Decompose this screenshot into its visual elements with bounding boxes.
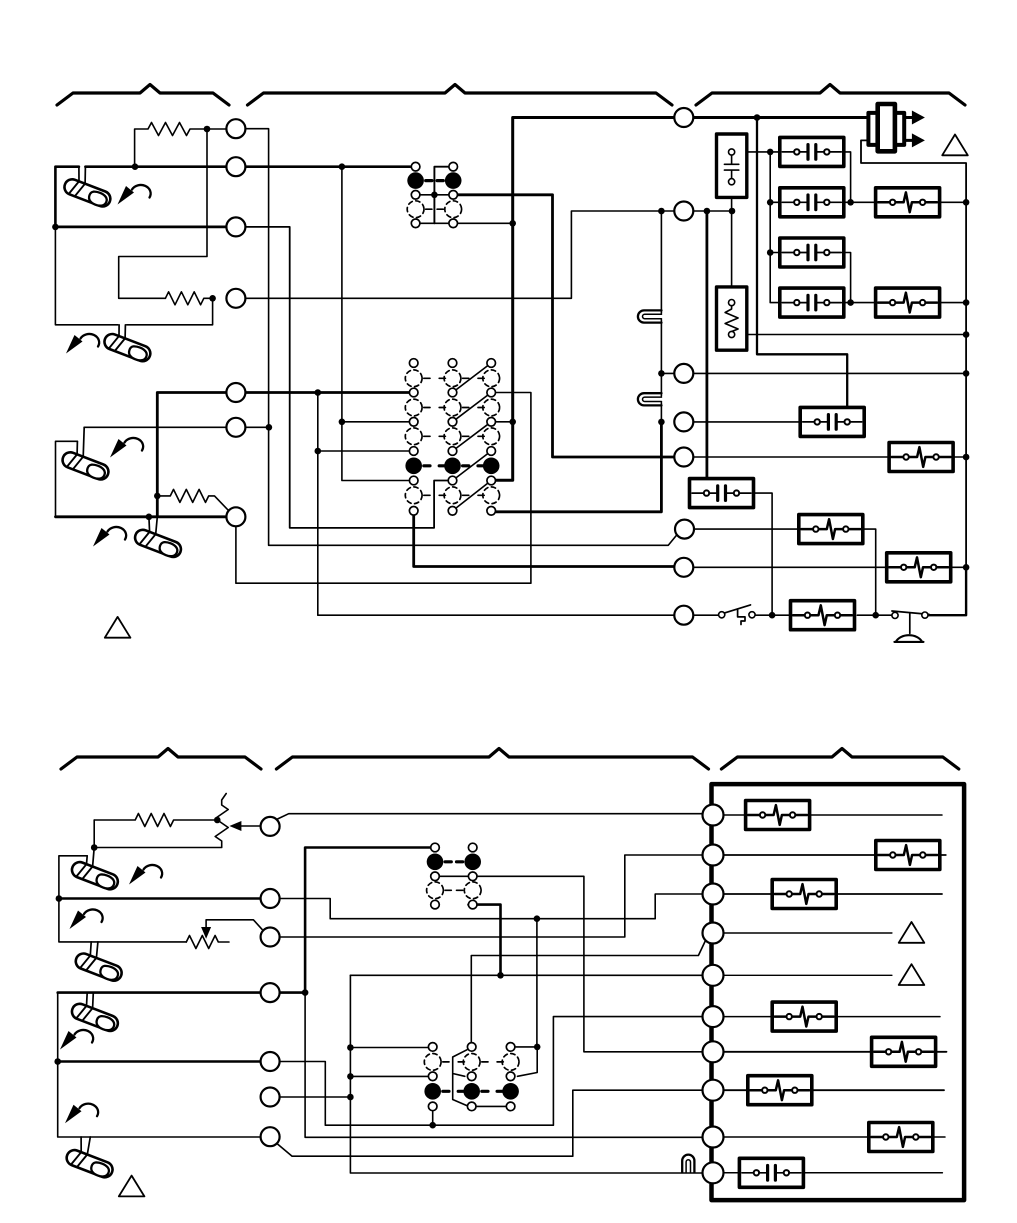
warning triangle note5	[899, 964, 925, 985]
wire relay row1	[735, 149, 851, 203]
terminal T1	[703, 805, 724, 826]
terminal B2	[261, 889, 280, 908]
wire fan row junction to system switch col1	[339, 167, 414, 481]
heater HB3	[772, 880, 836, 909]
system switch column1	[405, 359, 422, 515]
wire bulb1 electrodes	[79, 167, 86, 184]
terminal B5	[261, 1052, 280, 1071]
terminal L4	[226, 289, 245, 308]
potentiometer P1 with resistor	[91, 794, 228, 851]
wire terminal B1 to T1	[278, 814, 703, 819]
warning triangle note2	[942, 135, 968, 156]
wire bulb B4 electrodes	[81, 1137, 90, 1155]
terminal B7	[261, 1127, 280, 1146]
terminal R8	[674, 606, 693, 625]
fan switch bottom column2	[464, 843, 481, 909]
wire terminal L7 to system switch col3 row2	[236, 393, 531, 584]
terminal L3	[226, 217, 245, 236]
terminal L7	[226, 507, 245, 526]
potentiometer P2 wiper arrow	[201, 920, 262, 939]
heater HB6	[748, 1076, 812, 1105]
vertical contactor V1	[717, 134, 747, 197]
terminal B3	[261, 928, 280, 947]
wire heater V2 bottom row	[735, 334, 966, 336]
heater HB7	[869, 1123, 933, 1152]
wire fan switch mid row to terminal R5	[416, 194, 454, 196]
wire fan switch mid row to T7	[439, 876, 702, 1052]
heater H5	[887, 553, 951, 582]
relay coil B	[739, 1158, 803, 1187]
wire system switch col3 feed	[516, 919, 541, 1077]
wire common bus to T5	[350, 972, 702, 979]
wire terminal R2 to relay coil AUX	[706, 211, 709, 489]
resistor R3	[157, 489, 228, 510]
terminal R6	[675, 520, 694, 539]
wire terminal B3 to T2	[281, 855, 702, 937]
terminal T6	[703, 1006, 724, 1027]
wire T7 row	[724, 1051, 947, 1053]
terminal L5	[226, 383, 245, 402]
warning triangle note4	[899, 922, 925, 943]
brace subbase section (bottom middle)	[276, 749, 708, 770]
terminal T4	[703, 923, 724, 944]
terminal T3	[703, 884, 724, 905]
rotation arrow bulb2	[66, 334, 99, 354]
wire power bus R1 top	[491, 114, 868, 480]
wire system switch col3 row3 tap	[491, 421, 513, 423]
rotation arrow bulb1	[118, 185, 151, 205]
relay coil W	[800, 407, 864, 436]
wire terminal B5 row	[58, 1060, 260, 1063]
heater H6	[791, 601, 855, 630]
brace system section (bottom right)	[721, 749, 958, 770]
wire frame B5 to B7 row	[58, 1062, 260, 1138]
fan switch column2	[445, 162, 462, 227]
wire relay coil AUX to terminal R8 row	[738, 493, 776, 618]
wire terminal L6 row	[84, 426, 269, 428]
heater HB4	[772, 1002, 836, 1031]
wire terminal B5 to T6	[281, 1017, 702, 1129]
heater H4	[799, 515, 863, 544]
fan switch bottom column1	[427, 843, 444, 909]
relay coil row2	[780, 188, 844, 217]
warning triangle note3	[119, 1176, 145, 1197]
wire system switch col2 bus	[453, 1050, 467, 1106]
wire terminal L7 row	[56, 514, 226, 521]
rotation arrow bulb4	[93, 527, 126, 547]
wire fan switch bottom row	[416, 222, 454, 224]
wire system switch col2-col3 bottom link	[476, 1105, 507, 1107]
wire terminal R7 row to heater H5	[694, 566, 966, 568]
wire T2 row	[724, 854, 946, 856]
terminal B4	[261, 983, 280, 1002]
wire bulb B2 electrodes	[90, 942, 98, 958]
brace thermostat section (bottom left)	[61, 749, 261, 770]
brace system section (top right)	[696, 85, 965, 106]
system switch bottom column1	[424, 1043, 441, 1111]
terminal R4	[674, 412, 693, 431]
terminal R2	[674, 202, 693, 221]
wire T1 row	[724, 814, 942, 816]
wire terminal B4 row	[58, 989, 309, 996]
wire fan switch col2 bottom drop	[469, 905, 501, 976]
terminal L6	[226, 418, 245, 437]
wire terminal L3 row	[52, 224, 448, 528]
system switch column2	[444, 359, 461, 515]
wire terminal B7 to T8	[278, 1090, 703, 1156]
wire terminal L4 to terminal R2 net	[246, 208, 735, 299]
wire T9 row	[724, 1136, 945, 1138]
wire terminal L2 row to fan switch	[55, 163, 415, 227]
heater HB5	[872, 1037, 936, 1066]
terminal T5	[703, 965, 724, 986]
brace thermostat section (top left)	[57, 85, 229, 106]
wire T4 to system switch col2	[471, 941, 705, 1043]
wire bulb B1 frame	[56, 856, 88, 902]
lamp indicator 2	[638, 393, 662, 405]
wire terminal B4 to T9	[305, 993, 702, 1138]
lamp indicator 3	[682, 1155, 694, 1173]
fan switch bottom dashes	[445, 862, 463, 891]
wire frame B2 to B5	[54, 993, 61, 1065]
wire relay row2 to heater H1	[845, 199, 967, 206]
terminal T8	[703, 1080, 724, 1101]
relay coil row1	[780, 137, 844, 166]
terminal R1	[674, 108, 693, 127]
wire bulb3 electrodes	[77, 427, 84, 456]
warning triangle note1	[105, 617, 131, 638]
wire resistor junction to resistor R2	[119, 129, 207, 298]
system switch bottom dashes	[443, 1062, 504, 1091]
wire terminal R6 row to heater H4	[695, 529, 880, 618]
rotation arrow bulb3	[110, 438, 143, 458]
mercury switch bulb B4	[64, 1148, 115, 1180]
wire T10 row	[724, 1172, 942, 1174]
rotation arrow bulb B4	[65, 1104, 98, 1124]
wire vertical component chain	[731, 185, 733, 300]
heater H3	[889, 443, 953, 472]
wire terminal B6 stub	[281, 1094, 354, 1101]
lamp indicator 1	[638, 310, 662, 322]
wire terminal R4 to system switch col3 row6	[491, 422, 661, 512]
wire bulb3 frame	[56, 441, 78, 517]
wire terminal L5 row to system switch	[154, 389, 414, 517]
wire bulb B3 electrodes	[87, 993, 94, 1009]
transformer T1	[868, 104, 925, 151]
terminal B1	[261, 817, 280, 836]
terminal L1	[226, 119, 245, 138]
wire bulb B2 frame row	[59, 899, 186, 942]
mercury switch bulb4	[133, 528, 184, 560]
wire lamp chain	[658, 211, 665, 425]
wire terminal B4 to fan switch	[305, 848, 431, 993]
terminal T9	[703, 1127, 724, 1148]
heater H2	[876, 288, 940, 317]
wire terminal L1 to cooling terminal R6	[246, 129, 677, 546]
wire T6 row	[724, 1016, 940, 1018]
rotation arrow bulb B3	[60, 1030, 93, 1050]
wire bulb2 loop to resistor R2 junction	[55, 227, 216, 325]
clock switch with bell	[892, 611, 929, 642]
fan switch column1	[407, 162, 424, 227]
wire T4 row	[724, 932, 892, 934]
pushbutton switch	[719, 605, 756, 625]
wire terminal B2 row	[59, 897, 260, 900]
wire bulb2 electrodes	[119, 325, 125, 339]
wire relay row3	[845, 253, 851, 303]
wire T5 row	[724, 974, 892, 976]
wire terminal R3 row	[658, 370, 966, 377]
fan switch dashes	[426, 181, 444, 210]
terminal R3	[674, 364, 693, 383]
wire bulb B1 electrodes	[87, 848, 95, 867]
wire relay row4 to heater H2	[845, 299, 967, 306]
mercury switch bulb1	[62, 177, 113, 209]
system enclosure box	[712, 784, 965, 1200]
terminal T7	[703, 1041, 724, 1062]
system switch column3	[483, 359, 500, 515]
resistor R1 heat anticipator	[132, 123, 226, 171]
wire terminal R4 row to relay coil W	[694, 421, 800, 423]
heater HB1	[746, 801, 810, 830]
relay coil AUX	[690, 479, 754, 508]
rotation arrow bulb B1	[129, 865, 162, 885]
wire terminal R8 row	[694, 614, 892, 616]
mercury switch bulb3	[60, 450, 111, 482]
wire relay left bus	[767, 152, 780, 303]
wire T3 row	[724, 893, 942, 895]
terminal R5	[674, 448, 693, 467]
mercury switch bulb B2	[73, 951, 124, 983]
wire system switch col1 row3 drop	[432, 1111, 434, 1126]
wire right side return bus	[861, 140, 969, 615]
wire relay coil W top feed	[757, 118, 847, 418]
wire system switch col1 row6 to terminal R7	[414, 515, 674, 566]
wire bulb4 electrodes	[149, 517, 157, 534]
terminal L2	[226, 157, 245, 176]
wire system switch col1 taps	[350, 1048, 428, 1077]
rotation arrow bulb B2	[70, 909, 103, 929]
relay coil row3	[780, 238, 844, 267]
wire fan switch link	[431, 167, 453, 224]
wire T8 row	[724, 1089, 944, 1091]
brace subbase section (top middle)	[248, 85, 673, 106]
potentiometer P2	[186, 936, 229, 949]
terminal T10	[703, 1162, 724, 1183]
terminal R7	[674, 558, 693, 577]
mercury switch bulb B3	[70, 1002, 121, 1034]
terminal B6	[261, 1088, 280, 1107]
wire heat net to terminal R8 row	[315, 393, 674, 616]
resistor R2	[165, 292, 212, 305]
system switch bottom column2	[463, 1043, 480, 1111]
terminal T2	[703, 845, 724, 866]
mercury switch bulb2	[102, 332, 153, 364]
heater HB2	[876, 841, 940, 870]
wire common bus vertical to T10	[347, 975, 702, 1173]
potentiometer P1 wiper arrow	[229, 821, 259, 831]
system switch diagonals	[453, 363, 492, 511]
mercury switch bulb B1	[70, 860, 121, 892]
wire terminal R5 row to heater H3	[694, 456, 966, 458]
heater H1	[876, 188, 940, 217]
system switch dashes	[424, 378, 484, 495]
wire terminal B2 to T3	[281, 894, 702, 922]
system switch bottom column3	[502, 1043, 519, 1111]
relay coil row4	[780, 288, 844, 317]
vertical heater V2	[717, 287, 747, 350]
wire fan switch bottom to power bus	[453, 222, 513, 224]
